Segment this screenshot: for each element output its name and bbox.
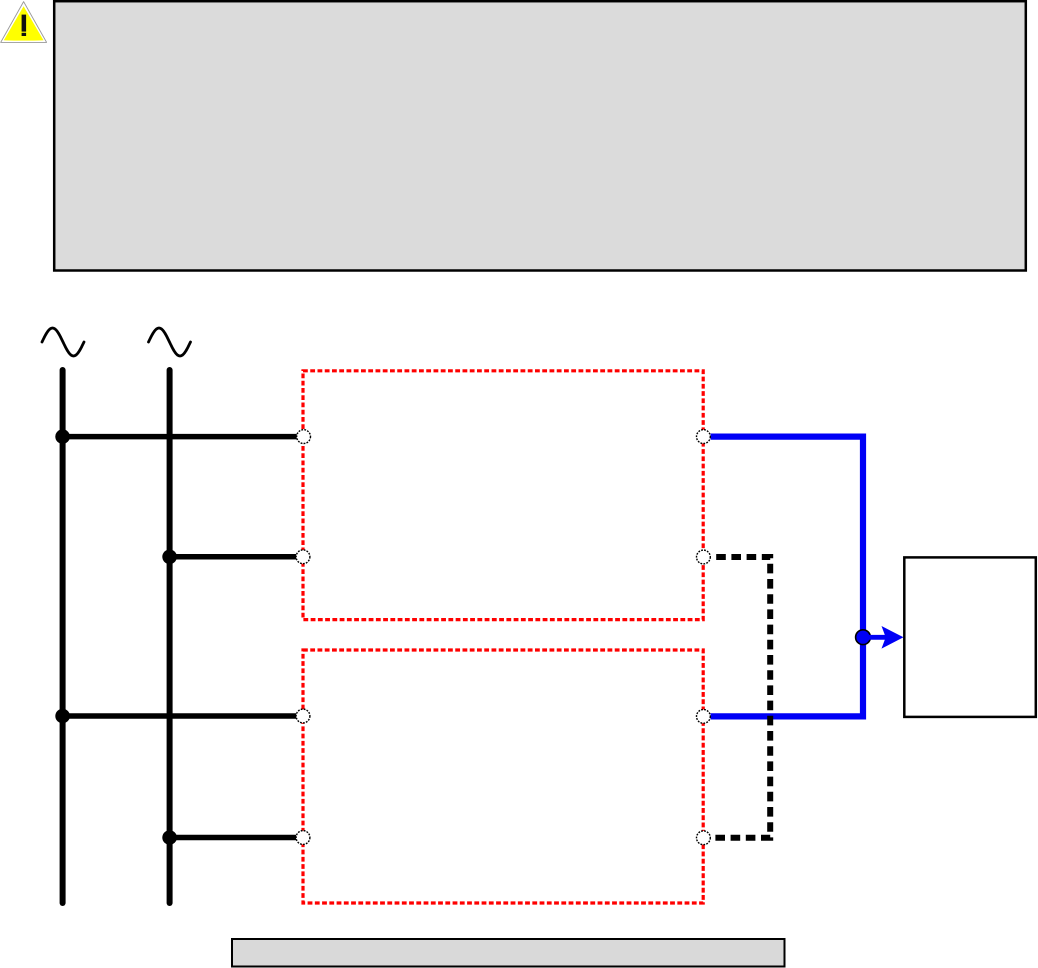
junction on bus1 (lower) [55,709,70,724]
junction on bus2 (upper) [162,550,177,565]
caption bar (gray) [232,939,785,967]
output box (solid rectangle) [904,557,1036,717]
junction on bus2 (lower) [162,830,177,845]
wire: bus1 to box2 upper-left terminal [63,713,297,719]
wire: black dashed link box1 to box2 [711,557,771,838]
wire: bus2 to box2 lower-left terminal [170,835,297,841]
AC source G1 (sine symbol) [42,328,84,356]
terminal: box2 upper-left [296,709,310,723]
junction on bus1 (upper) [55,429,70,444]
terminal: box2 lower-right [697,831,711,845]
terminal: box1 lower-right [697,550,711,564]
arrow into output box [869,626,904,649]
converter box 2 (red dashed outline) [303,650,703,903]
bus 2 (right vertical feeder wire) [167,370,173,903]
converter box 1 (red dashed outline) [303,371,703,620]
AC source G2 (sine symbol) [149,328,191,356]
terminal: box1 lower-left [296,550,310,564]
wire: bus1 to box1 upper-left terminal [63,434,297,440]
junction on blue wire [856,630,871,645]
terminal: box1 upper-right [697,430,711,444]
note box (gray callout rectangle) [54,1,1026,270]
terminal: box2 lower-left [296,831,310,845]
terminal: box2 upper-right [697,710,711,724]
wire: bus2 to box1 lower-left terminal [170,554,297,560]
wire: blue output path from box1 [711,437,863,717]
warning icon [1,2,47,43]
bus 1 (left vertical feeder wire) [60,370,66,903]
terminal: box1 upper-left [297,430,311,444]
